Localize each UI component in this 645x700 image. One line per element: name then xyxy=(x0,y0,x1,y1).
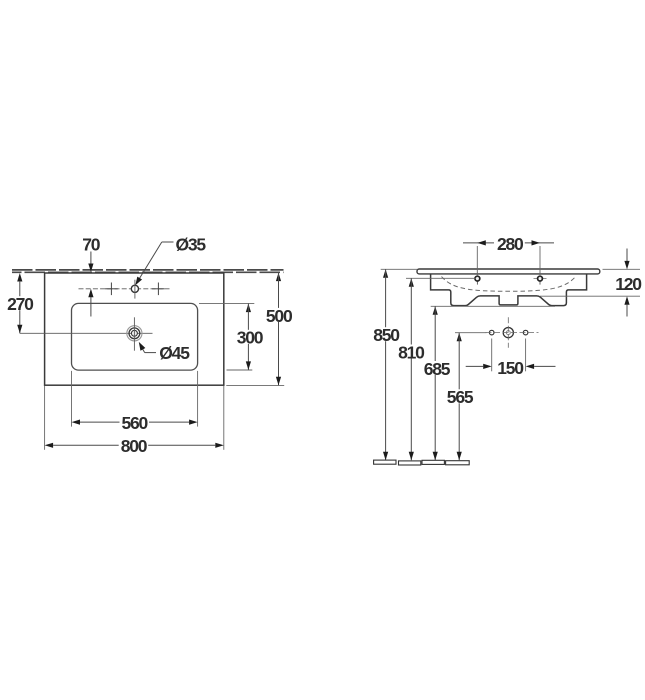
svg-text:120: 120 xyxy=(615,274,642,294)
right fixing bolt xyxy=(534,273,547,285)
dimension 150 xyxy=(466,339,556,378)
right tap hole cross xyxy=(152,283,165,296)
left tap hole cross xyxy=(105,283,118,296)
120 top extension line xyxy=(603,268,641,270)
svg-text:800: 800 xyxy=(121,436,148,456)
svg-text:270: 270 xyxy=(7,294,34,314)
500 bottom extension line xyxy=(226,385,284,387)
svg-text:300: 300 xyxy=(237,328,264,348)
dimension 560 xyxy=(72,371,198,433)
connections vertical centerline xyxy=(507,317,509,347)
tap hole row centerline xyxy=(79,288,170,290)
120 bottom extension line xyxy=(540,295,640,297)
floor hatch tiles xyxy=(374,460,470,465)
siphon outlet center circle xyxy=(503,328,513,338)
tap hole (Ø35) xyxy=(131,285,138,292)
dimension 70 xyxy=(82,235,101,317)
washbasin outer outline (plan) xyxy=(45,273,224,385)
dimension 120 xyxy=(540,249,642,317)
svg-text:565: 565 xyxy=(447,387,474,407)
svg-text:150: 150 xyxy=(497,358,524,378)
dimension 800 xyxy=(45,386,224,456)
svg-text:560: 560 xyxy=(121,413,148,433)
svg-text:810: 810 xyxy=(398,342,425,362)
svg-text:685: 685 xyxy=(424,359,451,379)
dimension 280 xyxy=(463,234,554,276)
svg-text:500: 500 xyxy=(266,306,293,326)
centerline from 270 dim to drain xyxy=(20,332,153,334)
dimension 810 xyxy=(396,278,476,460)
drain vertical centerline xyxy=(133,317,135,350)
tap hole vertical centerline xyxy=(134,280,136,299)
dimension 685 xyxy=(422,306,555,460)
300 bottom extension line xyxy=(227,369,253,371)
leader and label Ø45 xyxy=(139,342,190,363)
basin inner bowl outline (plan) xyxy=(72,303,198,370)
dimension 565 xyxy=(445,333,487,461)
dimension 500 xyxy=(226,273,293,386)
dimension 300 xyxy=(199,303,264,370)
300 top extension line xyxy=(199,302,254,304)
svg-text:Ø45: Ø45 xyxy=(159,343,190,363)
svg-text:280: 280 xyxy=(497,234,524,254)
bowl interior hidden line (dashed) xyxy=(442,277,576,292)
wall section hatch line (plan view top) xyxy=(12,270,284,272)
left fixing bolt xyxy=(475,273,480,285)
svg-text:70: 70 xyxy=(82,235,101,255)
right connection circle xyxy=(523,330,528,335)
svg-text:Ø35: Ø35 xyxy=(175,235,206,255)
dimension 850 xyxy=(371,269,417,460)
drain / supply connections: left circle xyxy=(489,330,494,335)
connections horizontal centerline xyxy=(486,332,539,334)
leader and label Ø35 xyxy=(135,235,206,286)
drain hole (Ø45) xyxy=(127,326,142,341)
svg-text:850: 850 xyxy=(373,325,400,345)
dimension 270 xyxy=(5,273,35,333)
console slab (front view) xyxy=(417,269,600,274)
washbasin body outline (front view) xyxy=(431,274,587,306)
